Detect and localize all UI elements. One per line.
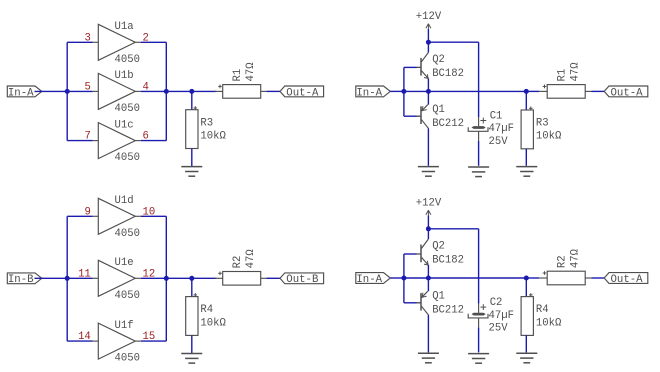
- svg-text:3: 3: [84, 32, 90, 44]
- svg-text:10kΩ: 10kΩ: [536, 131, 562, 143]
- svg-text:In-B: In-B: [8, 274, 34, 286]
- svg-text:11: 11: [78, 268, 91, 280]
- svg-text:Q1: Q1: [432, 104, 445, 116]
- svg-text:Out-A: Out-A: [286, 87, 319, 99]
- svg-text:9: 9: [84, 206, 90, 218]
- svg-text:R3: R3: [536, 118, 549, 130]
- svg-text:Out-A: Out-A: [611, 274, 644, 286]
- svg-text:BC182: BC182: [432, 255, 464, 267]
- svg-text:10kΩ: 10kΩ: [200, 130, 226, 142]
- svg-text:U1b: U1b: [115, 70, 134, 82]
- svg-text:5: 5: [84, 81, 90, 93]
- svg-text:BC212: BC212: [432, 118, 464, 130]
- svg-text:Q2: Q2: [432, 240, 445, 252]
- svg-text:2: 2: [143, 32, 149, 44]
- svg-text:10: 10: [143, 206, 156, 218]
- svg-text:6: 6: [143, 131, 149, 143]
- svg-text:R3: R3: [200, 117, 213, 129]
- svg-text:C1: C1: [490, 111, 503, 123]
- svg-text:U1c: U1c: [115, 119, 134, 131]
- svg-text:47µF: 47µF: [489, 310, 514, 322]
- svg-text:25V: 25V: [489, 323, 509, 335]
- svg-text:R2: R2: [557, 255, 569, 268]
- svg-text:U1d: U1d: [115, 195, 134, 207]
- svg-text:7: 7: [84, 131, 90, 143]
- svg-text:4050: 4050: [115, 228, 140, 240]
- svg-text:R4: R4: [536, 304, 549, 316]
- svg-text:Out-B: Out-B: [286, 274, 319, 286]
- svg-text:47µF: 47µF: [489, 123, 514, 135]
- svg-text:4050: 4050: [115, 54, 140, 66]
- svg-text:+12V: +12V: [416, 198, 442, 210]
- svg-text:R2: R2: [232, 256, 244, 269]
- svg-text:U1f: U1f: [115, 320, 134, 332]
- svg-text:U1e: U1e: [115, 257, 134, 269]
- svg-text:In-A: In-A: [8, 87, 34, 99]
- svg-text:47Ω: 47Ω: [570, 62, 582, 82]
- svg-text:In-A: In-A: [356, 87, 382, 99]
- svg-text:U1a: U1a: [115, 21, 134, 33]
- svg-text:Out-A: Out-A: [611, 87, 644, 99]
- svg-text:Q2: Q2: [432, 54, 445, 66]
- svg-text:R1: R1: [557, 69, 569, 82]
- svg-text:R1: R1: [232, 69, 244, 82]
- svg-text:47Ω: 47Ω: [245, 62, 257, 82]
- svg-text:BC212: BC212: [432, 305, 464, 317]
- svg-text:15: 15: [143, 331, 156, 343]
- svg-text:12: 12: [143, 268, 156, 280]
- svg-text:4050: 4050: [115, 290, 140, 302]
- svg-text:25V: 25V: [489, 136, 509, 148]
- svg-text:+12V: +12V: [416, 11, 442, 23]
- svg-text:14: 14: [78, 331, 91, 343]
- svg-text:4050: 4050: [115, 103, 140, 115]
- svg-text:BC182: BC182: [432, 68, 464, 80]
- svg-text:47Ω: 47Ω: [570, 248, 582, 268]
- svg-text:R4: R4: [200, 304, 213, 316]
- svg-text:In-A: In-A: [356, 274, 382, 286]
- svg-text:4050: 4050: [115, 353, 140, 365]
- svg-text:4: 4: [143, 81, 149, 93]
- svg-text:C2: C2: [490, 297, 503, 309]
- svg-text:Q1: Q1: [432, 290, 445, 302]
- svg-text:4050: 4050: [115, 152, 140, 164]
- svg-text:10kΩ: 10kΩ: [536, 317, 562, 329]
- svg-text:47Ω: 47Ω: [245, 249, 257, 269]
- svg-text:10kΩ: 10kΩ: [200, 317, 226, 329]
